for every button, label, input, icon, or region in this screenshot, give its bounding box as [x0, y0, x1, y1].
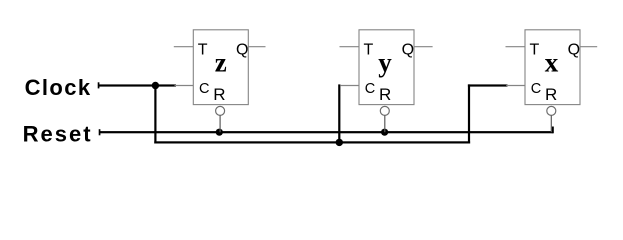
Clock port tick [98, 82, 100, 88]
svg-text:z: z [215, 48, 227, 78]
U1 Q output stub [248, 46, 265, 48]
U2 reset bubble [380, 106, 389, 115]
svg-text:y: y [378, 48, 392, 78]
svg-text:C: C [531, 81, 541, 97]
svg-text:Q: Q [236, 42, 248, 59]
svg-text:C: C [365, 81, 375, 97]
U3 bubble stub to Reset line [550, 115, 552, 132]
U1 C input stub [175, 85, 194, 87]
U3 reset bubble [547, 106, 556, 115]
flip-flop U3 (x) [506, 30, 598, 132]
svg-text:x: x [545, 48, 559, 78]
svg-text:R: R [379, 85, 391, 104]
node Reset junction at U1 [216, 129, 223, 136]
U1 box [193, 30, 248, 105]
svg-text:Reset: Reset [23, 122, 93, 147]
U2 box [359, 30, 414, 105]
svg-text:T: T [198, 41, 208, 58]
wire clock riser to U2 C [338, 84, 340, 143]
U2 bubble stub to Reset line [384, 115, 386, 132]
wire clock horizontal to U3 C [468, 84, 508, 86]
U3 T input stub [506, 46, 526, 48]
svg-text:R: R [213, 85, 225, 104]
svg-text:Q: Q [568, 42, 580, 59]
svg-text:T: T [364, 41, 374, 58]
wire Reset corner up to U3 bubble [552, 127, 554, 134]
flip-flop U2 (y) [340, 30, 433, 132]
wire Reset horizontal [100, 131, 553, 133]
U1 reset bubble [216, 106, 225, 115]
U2 T input stub [340, 46, 360, 48]
flip-flop U1 (z) [174, 30, 266, 132]
node clock branch junction [336, 139, 343, 146]
U3 C input stub [506, 85, 525, 87]
Reset port tick [99, 129, 101, 135]
U3 box [525, 30, 580, 105]
svg-text:Q: Q [402, 42, 414, 59]
wire Clock horizontal [99, 84, 177, 86]
U2 Q output stub [414, 46, 433, 48]
U1 bubble stub to Reset line [219, 115, 221, 132]
node Reset junction at U2 [381, 129, 388, 136]
U2 C input stub [340, 85, 359, 87]
svg-text:T: T [530, 41, 540, 58]
U1 T input stub [174, 46, 194, 48]
svg-text:R: R [545, 85, 557, 104]
wire clock riser to U3 C [468, 84, 470, 143]
svg-text:Clock: Clock [25, 75, 92, 100]
U3 Q output stub [580, 46, 597, 48]
wire clock bottom distribution [154, 141, 470, 143]
svg-text:C: C [199, 81, 209, 97]
node Clock junction [152, 82, 159, 89]
wire Clock vertical drop [154, 84, 156, 143]
